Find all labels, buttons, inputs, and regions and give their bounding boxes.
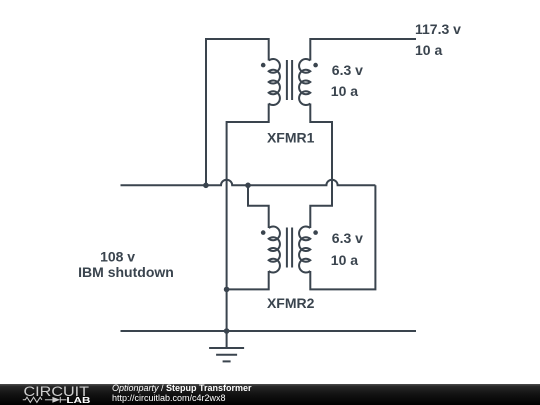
- svg-text:XFMR1: XFMR1: [267, 130, 315, 146]
- svg-text:6.3 v: 6.3 v: [332, 230, 363, 246]
- svg-text:117.3 v: 117.3 v: [415, 21, 461, 37]
- node: primaries bottom junction: [224, 287, 230, 293]
- ground: [209, 331, 244, 361]
- XFMR2 phase dot primary: [261, 230, 266, 235]
- svg-text:108 v: 108 v: [100, 249, 135, 265]
- svg-text:LAB: LAB: [66, 395, 90, 405]
- wire top-left: XFMR1 primary dot lead up-left-down to mid node: [206, 39, 269, 185]
- wire: bottom ground bus: [121, 330, 417, 332]
- svg-text:10 a: 10 a: [331, 252, 358, 268]
- node: ground bus junction: [224, 328, 230, 334]
- footer bar: [0, 384, 540, 405]
- transformer XFMR2: [269, 226, 311, 272]
- XFMR1 phase dot primary: [261, 63, 266, 68]
- svg-text:10 a: 10 a: [331, 83, 358, 99]
- transformer XFMR1: [269, 59, 311, 105]
- wire: XFMR1 primary bottom down to ground bus: [227, 104, 269, 332]
- CircuitLab logo resistor-diode wire: [23, 397, 67, 403]
- XFMR1 phase dot secondary: [313, 63, 318, 68]
- svg-text:XFMR2: XFMR2: [267, 295, 315, 311]
- wire top-right: XFMR1 secondary lead to output terminal: [310, 39, 416, 61]
- wire: XFMR1 secondary bottom to XFMR2 secondary top: [310, 104, 332, 229]
- XFMR2 phase dot secondary: [313, 230, 318, 235]
- svg-text:6.3 v: 6.3 v: [332, 62, 363, 78]
- svg-text:10 a: 10 a: [415, 42, 442, 58]
- wire: XFMR2 secondary bottom loop to middle net: [310, 185, 375, 289]
- wire: XFMR2 primary top from mid node: [248, 185, 269, 228]
- wire: middle horizontal net with two hops: [121, 180, 376, 186]
- node: mid net / XFMR2 primary top junction: [245, 183, 251, 189]
- svg-text:IBM shutdown: IBM shutdown: [78, 264, 174, 280]
- node: mid net / XFMR1 primary top junction: [203, 183, 209, 189]
- wire: XFMR2 primary bottom to ground bus: [227, 271, 269, 289]
